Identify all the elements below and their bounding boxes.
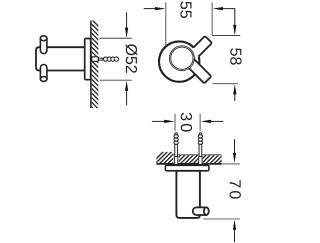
dim 30 label (181, 113, 192, 132)
boss ring outer (169, 46, 194, 71)
dim 30 right arrow + tail (201, 120, 211, 123)
wall face line (156, 163, 221, 165)
dim 58 top arrow (233, 25, 236, 35)
upper peg (vertical cylinder with dome bottom) (40, 38, 47, 53)
wall line (90, 21, 92, 109)
screw 2 coils (198, 135, 202, 138)
dim Ø52 label (125, 44, 137, 73)
dim 70 top arrow + tail (234, 139, 236, 153)
dim 70 bottom extension line (203, 218, 240, 220)
dim 58 bottom arrow + tail (233, 84, 236, 94)
dim Ø52 top arrow + tail (126, 12, 128, 28)
lower peg (-45 deg) (186, 58, 211, 83)
dim 70 label (230, 180, 241, 199)
peg (pointing right) (193, 207, 207, 215)
lower peg bottom ellipse (40, 77, 47, 82)
dim 55 label (180, 2, 191, 18)
dim 58 top extension line (212, 35, 240, 37)
dim 70 bottom arrow + tail (233, 219, 236, 229)
dim 55 left tail + arrow (144, 8, 156, 10)
dim Ø52 bottom extension line (100, 79, 132, 81)
screw 1 tip (175, 133, 178, 136)
screw shaft (98, 58, 103, 60)
screw 2 tip (199, 133, 202, 136)
dim 30 right extension line (199, 114, 201, 131)
flange (top view) (165, 165, 209, 171)
wall inner line (top of hatch band) (174, 154, 222, 156)
dim 58 bottom extension line (212, 83, 238, 85)
screw 1 coils (174, 135, 178, 138)
rosette outer circle (159, 41, 199, 81)
hook body (horizontal cylinder) (36, 47, 85, 70)
wall hatch (88, 16, 102, 117)
mounting flange (wall plate) (85, 39, 91, 80)
wall hatch top view (148, 151, 235, 167)
body (top view cylinder) (176, 171, 200, 218)
dim 58 label (230, 48, 241, 64)
dim 55 right arrow + corner to 58 (213, 7, 223, 10)
wall line extension toward dim 70 (222, 163, 240, 165)
dim 30 left tail + arrow (152, 120, 165, 122)
screw 1 (left) shaft (175, 144, 178, 157)
upper peg top ellipse (40, 36, 47, 41)
dim 30 left extension line (174, 114, 176, 131)
lower peg (vertical cylinder with dome top) (40, 65, 47, 80)
screw 2 (right) shaft (199, 144, 202, 157)
screw thread coils (104, 57, 108, 61)
dim Ø52 bottom arrow + tail (126, 91, 128, 105)
dim Ø52 top extension line (99, 37, 131, 39)
dim 55 right extension line (211, 2, 213, 35)
upper peg (45 deg) (187, 36, 212, 61)
peg end ellipse (204, 207, 209, 215)
boss ring inner (171, 47, 193, 69)
dim 55 left extension line (165, 2, 167, 47)
screw anchor head (92, 57, 99, 62)
